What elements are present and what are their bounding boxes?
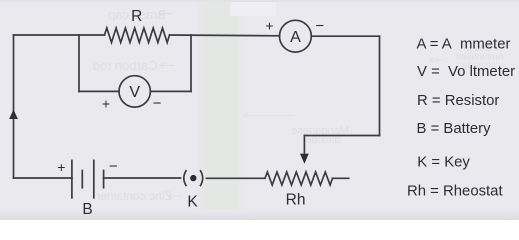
wire: left vertical (top-left corner down to bottom wire)	[13, 35, 15, 178]
svg-text:+: +	[265, 18, 273, 34]
decorative bleed-through (not labelled)	[92, 7, 504, 203]
legend text	[407, 36, 515, 199]
svg-text:R = Resistor: R = Resistor	[417, 93, 499, 109]
battery B plate 4 (short, -)	[103, 171, 105, 188]
svg-text:Rh = Rheostat: Rh = Rheostat	[407, 184, 503, 200]
svg-text:Rh: Rh	[286, 192, 306, 209]
svg-text:K = Key: K = Key	[417, 154, 470, 170]
key K left contact	[184, 171, 186, 186]
resistor R	[105, 28, 170, 43]
wire: horizontal to rheostat wiper	[304, 135, 379, 137]
svg-text:V = Vo ltmeter: V = Vo ltmeter	[417, 64, 515, 80]
voltmeter U1 (V)	[119, 76, 150, 107]
svg-text:R: R	[131, 8, 142, 25]
svg-text:B = Battery: B = Battery	[417, 121, 492, 137]
wire: voltmeter branch left vertical	[78, 35, 80, 91]
battery B plate 3 (long)	[93, 160, 95, 197]
key K centre dot	[190, 175, 196, 181]
svg-text:V: V	[129, 84, 140, 101]
svg-text:Carbon rod: Carbon rod	[92, 58, 157, 73]
wire: voltmeter branch right vertical	[190, 35, 192, 91]
svg-text:−: −	[109, 158, 118, 175]
svg-text:+: +	[102, 96, 110, 112]
current direction arrow (left wire, up)	[9, 110, 18, 120]
wire: ammeter to top-right corner	[311, 35, 379, 37]
wire: rheostat right stub	[333, 177, 349, 179]
wire: top horizontal from resistor to ammeter	[170, 34, 280, 37]
wire: right vertical down from top-right corner	[379, 36, 381, 135]
wire: top horizontal from left corner to resistor	[14, 34, 105, 36]
svg-text:−: −	[153, 95, 162, 112]
svg-text:−: −	[315, 18, 324, 35]
wire: key to rheostat	[207, 177, 266, 179]
wire: voltmeter branch left horizontal	[79, 90, 119, 92]
rheostat Rh	[265, 172, 333, 185]
battery B plate 1 (long, +)	[71, 160, 73, 197]
wire: battery to key	[104, 177, 181, 179]
svg-text:A = A mmeter: A = A mmeter	[417, 36, 511, 52]
svg-text:B: B	[82, 201, 92, 218]
wire: rheostat wiper vertical	[303, 136, 305, 155]
svg-text:Zinc container: Zinc container	[96, 189, 171, 203]
rheostat wiper arrowhead (down)	[300, 154, 309, 164]
wire: bottom from left corner to battery	[14, 177, 72, 179]
svg-text:K: K	[187, 194, 198, 211]
wire: voltmeter branch right horizontal	[150, 90, 191, 92]
battery B plate 2 (short)	[81, 171, 83, 188]
svg-text:A: A	[290, 29, 301, 46]
svg-text:+: +	[57, 159, 65, 175]
key K right contact	[201, 171, 203, 186]
ammeter U2 (A)	[280, 20, 312, 52]
